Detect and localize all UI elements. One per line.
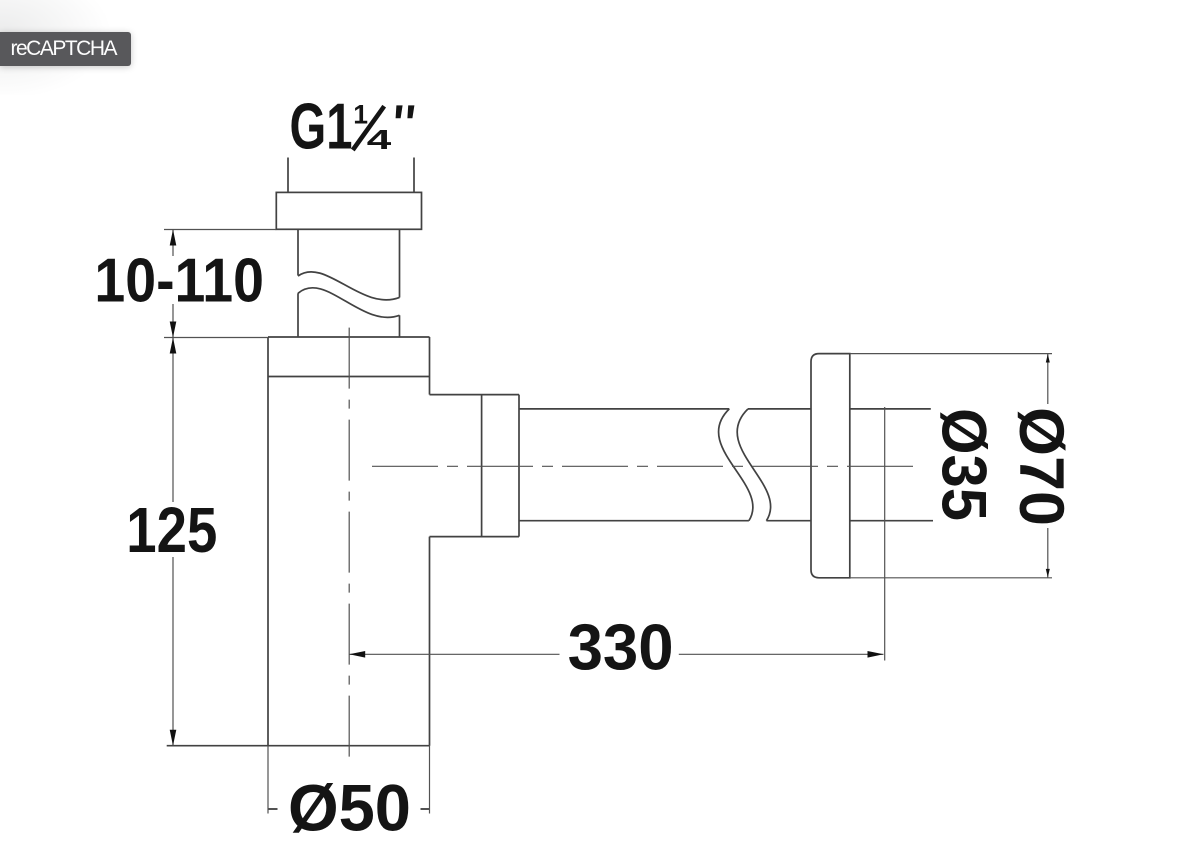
svg-text:4: 4 xyxy=(367,124,393,155)
trap body cap seam xyxy=(268,376,430,378)
horizontal centerline of outlet xyxy=(372,465,913,467)
outlet pipe top edge xyxy=(519,408,811,410)
fraction slash xyxy=(353,106,384,150)
trap body left edge xyxy=(267,337,269,746)
corner shade xyxy=(0,0,160,95)
extension line flange bottom (10-110 top) xyxy=(164,229,276,231)
O70 extension line top xyxy=(850,353,1052,355)
leader line right of G1 1/4 xyxy=(413,158,415,193)
arrow up 10-110 top xyxy=(170,230,177,246)
leader line left of G1 1/4 xyxy=(287,158,289,193)
svg-text:125: 125 xyxy=(126,494,217,566)
outlet nut right edge xyxy=(518,395,520,537)
outlet neck bottom xyxy=(430,536,520,538)
arrow right 330 xyxy=(868,651,884,658)
trap body bottom edge (extends left as extension line) xyxy=(167,745,430,747)
double prime xyxy=(396,105,415,118)
outlet neck top xyxy=(430,394,520,396)
svg-text:Ø50: Ø50 xyxy=(288,771,411,845)
inlet pipe break curve lower xyxy=(298,288,400,318)
extension line body top (10-110 bottom / 125 top) xyxy=(164,337,268,339)
arrow down O70 xyxy=(1046,569,1050,578)
330 dimension line xyxy=(349,653,883,655)
inlet flange (top nut) xyxy=(276,192,421,229)
svg-text:Ø70: Ø70 xyxy=(1006,407,1076,526)
inlet pipe right wall xyxy=(399,229,401,337)
inlet pipe break curve upper xyxy=(298,272,400,300)
arrow left 330 xyxy=(349,651,365,658)
10-110 dimension line xyxy=(172,230,174,338)
svg-text:G1: G1 xyxy=(290,91,353,163)
outlet nut left edge xyxy=(481,395,483,537)
arrow down 10-110 bottom xyxy=(170,322,177,338)
vertical centerline of body xyxy=(348,328,350,760)
outlet pipe break curve left xyxy=(719,409,753,521)
trap body right edge upper xyxy=(429,337,431,395)
O50 extension line left xyxy=(267,746,269,814)
svg-text:Ø35: Ø35 xyxy=(929,408,999,521)
outlet pipe bottom edge after flange xyxy=(850,520,933,522)
trap body right edge lower xyxy=(429,537,431,746)
arrow up 125 top xyxy=(170,338,177,354)
wall flange xyxy=(811,354,850,578)
svg-text:10-110: 10-110 xyxy=(94,247,264,316)
inlet pipe left wall xyxy=(297,229,299,337)
outlet pipe bottom edge xyxy=(519,520,811,522)
outlet pipe break curve right xyxy=(737,409,770,521)
125 dimension line xyxy=(172,338,174,746)
arrow up O70 xyxy=(1046,354,1050,363)
outlet pipe top edge after flange xyxy=(850,408,931,410)
O70 extension line bottom xyxy=(850,577,1052,579)
svg-text:330: 330 xyxy=(568,611,674,684)
O50 extension line right xyxy=(429,746,431,814)
trap body top edge xyxy=(268,336,430,338)
O50 tick left xyxy=(268,808,278,810)
arrow down 125 bottom xyxy=(170,730,177,746)
O50 tick right xyxy=(421,808,430,810)
reCAPTCHA badge xyxy=(0,32,131,67)
O70 dimension line xyxy=(1047,354,1049,578)
pipe end / 330 extension line xyxy=(884,407,886,661)
